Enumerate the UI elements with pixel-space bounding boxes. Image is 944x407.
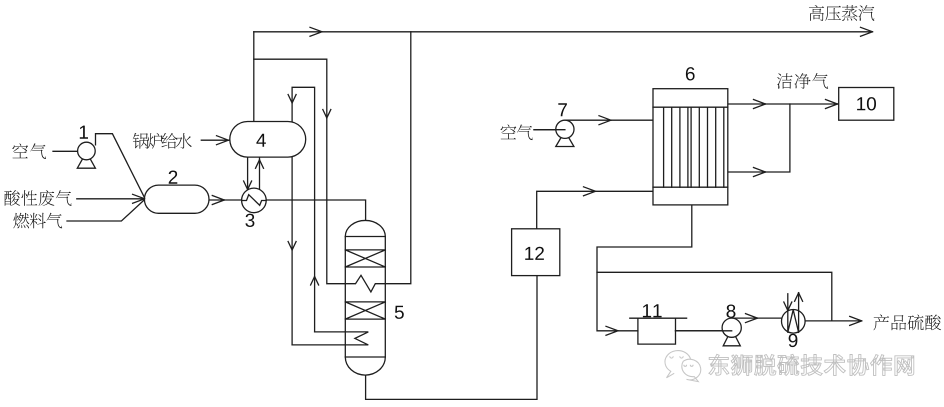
wire pump 8 outlet to cooler 9 (732, 317, 782, 319)
column 5 coil (345, 332, 368, 345)
arrow up into drum 4 bottom (256, 160, 264, 169)
exchanger 3 zigzag (242, 195, 267, 206)
watermark small bubble (682, 359, 701, 381)
cooler 9 internals (788, 293, 799, 333)
blower 1 (78, 142, 96, 160)
wire steam riser from drum 4 (253, 32, 255, 122)
blower 7 base (556, 131, 574, 147)
label guolu 锅炉给水 (133, 133, 192, 149)
arrow down into drum 4 top (288, 95, 296, 104)
blower 7 (556, 120, 574, 138)
watermark big bubble (665, 351, 691, 378)
wire exchanger 3 to drum 4 right stub (259, 157, 261, 189)
watermark logo (chat bubbles) (665, 351, 701, 382)
reactor 6 headers (653, 107, 728, 187)
arrow reactor 6 lower outlet (754, 168, 766, 177)
pump 8 (722, 318, 741, 337)
arrow boiler feed water (217, 136, 229, 145)
wire high pressure steam header (254, 31, 873, 33)
arrow into vessel 2 (133, 194, 145, 203)
pump 8 inlet line to center (676, 330, 732, 332)
arrow down on drum feed line (323, 110, 331, 119)
column 5 lower packing X (345, 302, 385, 319)
label suanxing 酸性废气 (4, 190, 71, 206)
label 2 (169, 171, 178, 184)
label 7 (558, 103, 567, 116)
wire circulation loop over drum 4 (292, 87, 315, 345)
wire acid waste gas line (77, 198, 145, 200)
arrow box 12 to reactor 6 (584, 187, 596, 196)
arrow steam header mid (310, 27, 322, 36)
wire box 12 top to reactor 6 lower left (537, 191, 653, 229)
label kongqi_L 空气 (12, 143, 46, 159)
watermark small bubble eyes (684, 365, 693, 367)
label ranliao 燃料气 (13, 213, 62, 229)
column 5 break zigzag (345, 275, 385, 292)
box 10 (839, 88, 894, 121)
wire vessel 2 outlet through exchanger 3 to column 5 top (209, 200, 366, 222)
label 10 (857, 97, 876, 110)
wire header drop to column 5 right nozzle (385, 32, 411, 284)
wire boiler feed water arrow (201, 139, 229, 141)
column 5 upper packing X (345, 250, 385, 267)
column 5 shell (345, 220, 385, 375)
cooler 9 (782, 310, 806, 334)
label 11 (643, 304, 662, 317)
wire pump 7 outlet to reactor 6 (565, 119, 653, 121)
arrow up on cooler 9 right line (795, 293, 803, 302)
wire pump 1 outlet to mixer junction (96, 134, 146, 199)
label 5 (395, 306, 404, 319)
reactor 6 tubes (664, 107, 724, 187)
exchanger 3 (242, 188, 267, 213)
label kongqi_R 空气 (501, 124, 533, 140)
arrow vessel 2 to exchanger 3 (212, 196, 224, 205)
label 6 (686, 67, 695, 80)
label 1 (80, 126, 88, 139)
arrow down on downcomer (288, 242, 296, 251)
wire branch to product line (597, 272, 832, 321)
arrow into box 11 (606, 326, 618, 335)
wire air to pump 7 (534, 129, 565, 131)
arrow steam header end (861, 27, 873, 36)
wire reactor 6 bottom to box 11 (597, 205, 692, 331)
wire air to pump 1 (53, 150, 78, 152)
label 8 (727, 305, 736, 318)
label gaoya 高压蒸汽 (809, 5, 874, 21)
steam drum 4 (230, 122, 306, 158)
box 11 top line (630, 317, 687, 319)
pump 7 inlet line to center (534, 129, 565, 131)
arrow up on riser (311, 277, 319, 286)
vessel 2 (144, 185, 209, 213)
label 4 (256, 134, 266, 147)
wire cooler 9 outlet to product arrow (805, 320, 862, 322)
wire coil upper nozzle (315, 331, 346, 333)
arrow reactor 6 top outlet (754, 100, 766, 109)
arrow pump 8 to cooler 9 (746, 314, 758, 323)
arrow product acid (850, 316, 862, 325)
arrow into box 10 (826, 100, 838, 109)
blower 1 base (77, 152, 95, 168)
wire column 5 bottom to box 12 (366, 276, 537, 400)
box 11 body (638, 318, 676, 344)
box 12 (512, 229, 560, 276)
arrow down on cooler 9 left line (784, 302, 792, 311)
arrow down into exchanger 3 (244, 181, 252, 190)
wire reactor 6 lower outlet (728, 104, 790, 172)
arrow pump 7 to reactor 6 (599, 116, 611, 125)
wire reactor 6 top outlet to box 10 (728, 103, 839, 105)
wire drum 4 to exchanger 3 left stub (247, 157, 249, 190)
column 5 bottom tangent line (345, 356, 385, 358)
watermark text 东狮脱硫技术协作网 (709, 354, 914, 375)
label jiejing 洁净气 (777, 73, 828, 89)
ARROWHEADS (133, 27, 873, 335)
reactor 6 body (653, 89, 728, 205)
label chanpin 产品硫酸 (873, 314, 941, 330)
watermark big bubble eyes (670, 356, 683, 358)
wire coil lower nozzle (292, 344, 345, 346)
wire box 11 outlet to pump 8 (676, 330, 732, 332)
pump 8 base (723, 329, 740, 346)
column 5 top tangent line (345, 236, 385, 238)
wire fuel gas line (67, 199, 145, 221)
wire drum 4 feed down to column 5 left nozzle (254, 59, 345, 284)
label 9 (789, 334, 798, 347)
label 12 (525, 247, 544, 260)
label 3 (245, 214, 254, 227)
